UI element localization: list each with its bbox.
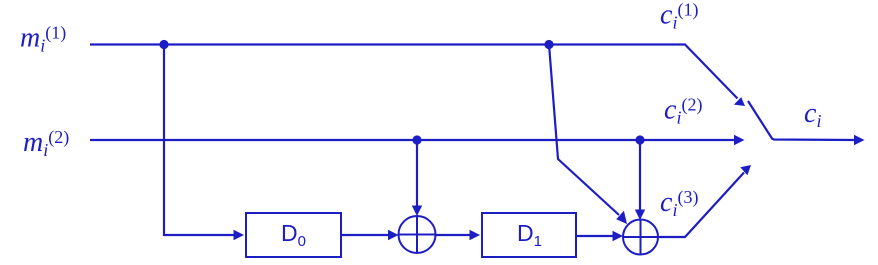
delay box D1	[482, 213, 576, 257]
wire node C down to XOR2	[639, 140, 641, 210]
svg-text:ci(3): ci(3)	[660, 187, 698, 220]
arrowhead XOR1 to D1	[470, 230, 481, 240]
arrowhead m2 line end	[734, 135, 745, 145]
node B dot	[412, 135, 421, 144]
svg-text:D0: D0	[281, 220, 306, 250]
arrowhead D0 to XOR1	[388, 230, 399, 240]
svg-text:ci: ci	[804, 98, 821, 131]
delay box D0	[246, 213, 341, 257]
svg-text:mi(2): mi(2)	[23, 127, 69, 160]
arrowhead D1 to XOR2	[613, 231, 624, 241]
wire m2 horizontal	[90, 139, 734, 141]
wire XOR2 output to c3 arrow	[658, 173, 744, 238]
wire XOR1 to D1	[436, 234, 470, 236]
svg-text:ci(1): ci(1)	[660, 0, 698, 33]
arrowhead diagonal into XOR2	[616, 211, 627, 224]
XOR gate X1	[399, 216, 436, 253]
switch blade	[748, 101, 854, 140]
svg-text:D1: D1	[517, 220, 542, 250]
arrowhead into D0	[234, 230, 245, 240]
arrowhead output ci	[854, 135, 865, 145]
arrowhead node C into XOR2	[635, 210, 645, 221]
arrowhead c1 diagonal end	[734, 97, 745, 106]
wire tap from node A down to D0	[164, 45, 234, 236]
wire D1 to XOR2	[576, 235, 613, 237]
wire D0 to XOR1	[341, 234, 388, 236]
node A dot	[159, 40, 168, 49]
arrowhead node B into XOR1	[412, 206, 422, 217]
arrowhead c3 diagonal end	[740, 165, 751, 175]
svg-text:ci(2): ci(2)	[664, 95, 702, 128]
wire node B down to XOR1	[416, 140, 418, 206]
node C dot	[635, 135, 644, 144]
XOR gate X2	[623, 220, 658, 255]
svg-text:mi(1): mi(1)	[20, 23, 66, 56]
wire m1 horizontal	[90, 45, 738, 99]
node D dot	[544, 40, 553, 49]
wire diagonal node D to XOR2	[549, 45, 619, 216]
